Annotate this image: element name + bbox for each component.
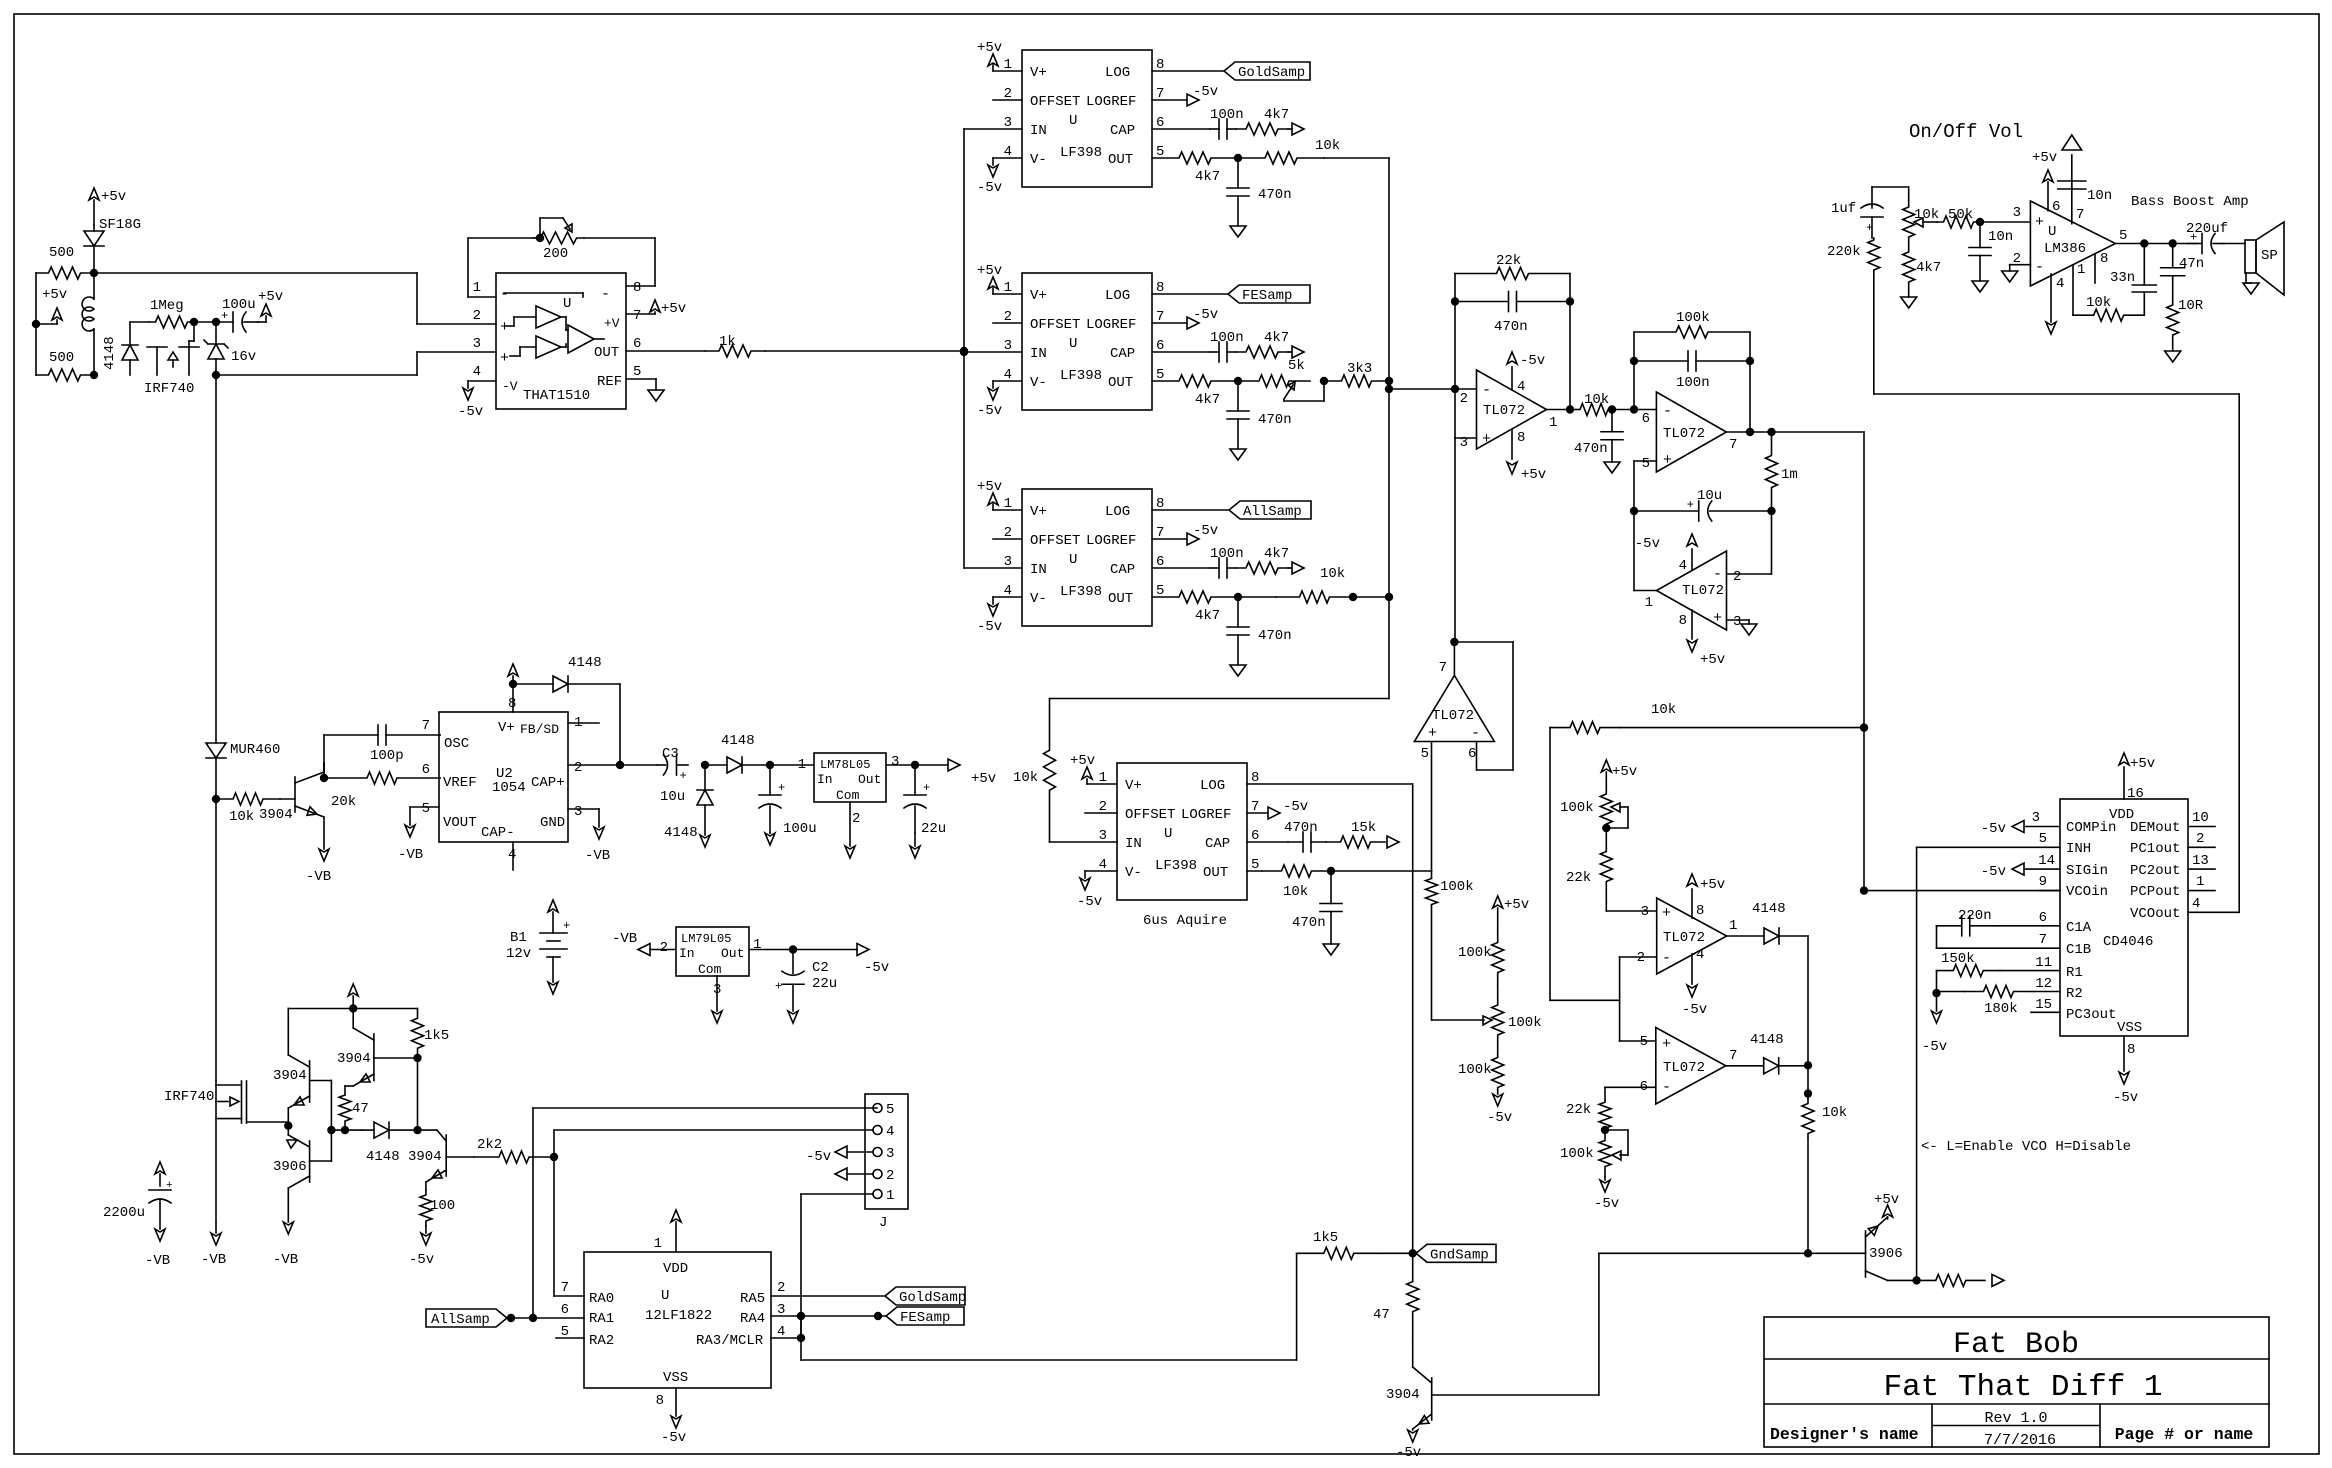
diode 4148 at TL072-6 out [1726,1032,1808,1074]
power arrow below 22u [910,833,920,858]
node 100k pot bottom [1603,825,1610,832]
svg-text:4: 4 [2056,276,2064,292]
svg-text:CAP: CAP [1110,123,1135,139]
node AllSamp b [530,1315,537,1322]
resistor 4k7 at U-B OUT [1152,375,1238,408]
node U-B out divider [1235,378,1242,385]
power -5v arrow at U-D pin4 [1077,871,1117,910]
svg-text:5: 5 [633,364,641,380]
power -VB at left rail bottom [201,1222,226,1268]
IC U2 1054 box [422,696,583,863]
svg-text:+: + [1662,1036,1671,1053]
power -VB at 3904 emitter [306,817,331,885]
svg-text:-5v: -5v [1981,864,2006,880]
wire U-A pin2 OFFSET stub [993,99,1022,101]
svg-text:8: 8 [656,1393,664,1409]
svg-text:3904: 3904 [273,1068,307,1084]
resistor 100k chain pot [1492,985,1542,1055]
svg-text:2: 2 [473,308,481,324]
node 10k out [1609,406,1616,413]
svg-text:V+: V+ [498,720,515,736]
wire top rail to THAT1510 pin2 [94,273,496,324]
svg-text:RA4: RA4 [740,1311,765,1327]
transistor Q 3906 enable [1866,1217,1903,1280]
svg-text:V-: V- [1125,865,1142,881]
wire CD4046 pin1 PCPout stub [2188,874,2215,891]
svg-text:OFFSET: OFFSET [1030,533,1080,549]
svg-text:OUT: OUT [1203,865,1228,881]
svg-text:2: 2 [574,760,582,776]
capacitor 100p [324,725,440,778]
svg-text:470n: 470n [1292,915,1326,931]
svg-text:-5v: -5v [977,180,1002,196]
svg-text:-: - [1471,725,1480,742]
svg-text:22k: 22k [1566,1102,1591,1118]
svg-text:-V: -V [502,379,518,394]
svg-text:4148: 4148 [366,1149,400,1165]
svg-text:OUT: OUT [594,345,619,361]
wire 100k to wiper [1432,905,1493,1025]
svg-text:V+: V+ [1030,288,1047,304]
svg-text:470n: 470n [1258,628,1292,644]
svg-text:10k: 10k [1651,702,1676,718]
svg-text:47n: 47n [2179,256,2204,272]
svg-text:15: 15 [2035,997,2052,1013]
svg-text:3: 3 [891,754,899,770]
svg-text:AllSamp: AllSamp [431,1312,490,1328]
node MUR460 junction [213,796,220,803]
op-amp U-B LF398 sample-hold box [1004,273,1165,410]
svg-text:OUT: OUT [1108,152,1133,168]
svg-text:2: 2 [886,1168,894,1184]
svg-text:V-: V- [1030,591,1047,607]
svg-text:+5v: +5v [2032,150,2057,166]
svg-text:7: 7 [1729,1048,1737,1064]
capacitor 33n bass boost [2110,244,2156,316]
resistor 1Meg [130,298,194,328]
resistor 10k to 3904 base [216,793,280,825]
svg-text:1uf: 1uf [1831,201,1856,217]
wire bottom rail to THAT1510 pin3 [216,352,496,375]
svg-text:FB/SD: FB/SD [520,722,559,737]
speaker SP [2224,222,2284,295]
node 100u reg in [767,762,774,769]
svg-text:1k: 1k [719,334,736,350]
capacitor 1uf [1831,187,1883,238]
svg-text:6: 6 [561,1302,569,1318]
svg-text:GoldSamp: GoldSamp [899,1290,966,1306]
svg-text:PC1out: PC1out [2130,841,2180,857]
resistor 10k at U-D OUT [1247,865,1331,900]
svg-text:Com: Com [836,788,860,803]
svg-text:THAT1510: THAT1510 [523,388,590,404]
svg-text:CAP+: CAP+ [531,775,565,791]
svg-text:6: 6 [2039,910,2047,926]
capacitor 220uf output [2186,221,2228,254]
svg-text:100n: 100n [1210,330,1244,346]
wire AllSamp to J5 [533,1108,877,1318]
op-amp U-D LF398 sample-hold box [1099,763,1260,900]
title text Rev 1.0 [1984,1410,2047,1427]
wire TL072-2 pin5 [1634,461,1656,511]
svg-text:-5v: -5v [1635,536,1660,552]
resistor 10k pull [1802,1099,1847,1253]
svg-text:LOG: LOG [1105,504,1130,520]
op-amp U THAT1510 box [473,273,642,409]
transistor Q 3904 upper pair [273,1055,331,1130]
svg-text:CAP: CAP [1110,562,1135,578]
svg-text:1: 1 [1645,595,1653,611]
battery B1 12v [506,900,570,994]
svg-text:16: 16 [2127,786,2144,802]
transistor Q 3904 cascode [337,1009,418,1087]
svg-text:1: 1 [2077,262,2085,278]
svg-text:+: + [778,781,785,795]
resistor 500 bottom [36,350,93,381]
wire TL072-4 pin5 down [1431,742,1433,872]
node 22k bottom [1602,1127,1609,1134]
svg-text:LM78L05: LM78L05 [820,758,870,772]
svg-text:10u: 10u [1697,488,1722,504]
wire OSC pin7 [439,734,440,736]
svg-text:10k: 10k [1914,207,1939,223]
svg-text:LM386: LM386 [2044,241,2086,257]
capacitor 22u reg [904,765,946,837]
wire to rail [1353,596,1389,598]
capacitor 100n and resistor 4k7 on U-A pin6 CAP [1152,107,1304,139]
power +5v arrow at 100u [258,289,283,322]
wire TL072-3 output loop [1634,511,1657,591]
svg-text:U: U [1069,113,1077,129]
node TL072-1 output [1567,406,1574,413]
svg-text:LF398: LF398 [1155,858,1197,874]
resistor 1k5 cluster [412,1009,450,1059]
net flag GoldSamp at RA5 [771,1287,966,1306]
node LM386 out a [2141,240,2148,247]
svg-text:100k: 100k [1560,1146,1594,1162]
svg-text:LM79L05: LM79L05 [681,932,731,946]
resistor 47 GndSamp [1373,1253,1419,1340]
svg-text:4k7: 4k7 [1264,546,1289,562]
svg-text:+5v: +5v [1700,652,1725,668]
svg-text:OUT: OUT [1108,591,1133,607]
svg-text:V-: V- [1030,152,1047,168]
svg-text:4: 4 [1696,947,1704,963]
svg-text:REF: REF [597,374,622,390]
svg-text:1Meg: 1Meg [150,298,184,314]
svg-text:500: 500 [49,350,74,366]
svg-text:VCOin: VCOin [2066,884,2108,900]
svg-text:FESamp: FESamp [1242,288,1292,304]
wire left rail lower [215,799,217,1222]
svg-text:100u: 100u [783,821,817,837]
power +5v arrow at THAT1510 pin7 [626,300,686,317]
svg-text:8: 8 [1517,430,1525,446]
transistor Q 3904 gnd sample [1386,1253,1808,1429]
power -5v arrow at U-B pin4 V- [977,381,1022,419]
power +5v arrow at U-B pin1 V+ [977,263,1022,294]
resistor 150k at CD4046 R1 [1937,951,2061,993]
svg-text:3904: 3904 [408,1149,442,1165]
svg-text:2: 2 [1637,950,1645,966]
svg-text:TL072: TL072 [1663,930,1705,946]
wire 3906 collector to INH rail [1888,1279,1917,1281]
power -5v output arrow [857,944,889,977]
wire to LM386 pin3 [1980,221,2030,223]
net flag AllSamp to RA1 [426,1309,584,1328]
power -5v at TL072-3 pin4 [1635,534,1697,574]
ground at THAT1510 pin5 REF [626,379,664,401]
svg-text:V+: V+ [1030,504,1047,520]
svg-text:+5v: +5v [971,771,996,787]
wire MUR460 to junction [215,758,217,799]
power ground at LM386 pin4 [2046,274,2064,334]
resistor pot 5k trim [1238,358,1324,401]
svg-text:3: 3 [2013,205,2021,221]
svg-text:-5v: -5v [1487,1110,1512,1126]
svg-text:RA5: RA5 [740,1291,765,1307]
svg-text:GoldSamp: GoldSamp [1238,65,1305,81]
svg-text:+5v: +5v [977,263,1002,279]
wire TL072-5 pin2 [1620,956,1657,958]
svg-text:12: 12 [2035,976,2052,992]
svg-text:4k7: 4k7 [1916,260,1941,276]
resistor 500 top [36,245,93,279]
ground below U-D 470n [1323,944,1339,955]
wire CD4046 pin10 DEMout stub [2188,810,2215,827]
power +5v at LM386 pin6 [2032,150,2060,215]
wire LM386 pin8 stub [2095,251,2108,283]
power arrow at J2 [835,1168,873,1180]
svg-text:3906: 3906 [273,1159,307,1175]
svg-text:OFFSET: OFFSET [1030,317,1080,333]
svg-text:-5v: -5v [458,404,483,420]
node 50k out [1977,219,1984,226]
node feedback tap [1452,386,1459,393]
svg-text:8: 8 [1696,903,1704,919]
op-amp TL072-1 [1460,370,1558,451]
wire 3904 collector up [323,763,325,778]
svg-text:CAP-: CAP- [481,825,515,841]
power -5v below 100k chain [1487,1090,1512,1126]
svg-text:22k: 22k [1496,253,1521,269]
svg-text:IN: IN [1030,123,1047,139]
svg-text:-5v: -5v [977,619,1002,635]
svg-text:LOGREF: LOGREF [1181,807,1231,823]
text 6us Aquire [1143,913,1227,929]
svg-text:+: + [1482,431,1491,448]
resistor 100k divider top [1426,878,1474,905]
power -5v at 3904 gnd sample emitter [1396,1429,1421,1461]
svg-text:200: 200 [543,246,568,262]
wire LM386 output [2115,243,2196,245]
node 100u left [213,319,220,326]
svg-text:Page # or name: Page # or name [2115,1425,2254,1444]
svg-text:6: 6 [2052,199,2060,215]
svg-text:LF398: LF398 [1060,584,1102,600]
svg-text:R2: R2 [2066,986,2083,1002]
svg-text:Out: Out [858,772,881,787]
svg-text:+: + [923,781,930,795]
wire THAT1510 pin1 to gain pot [468,238,540,297]
IC 12LF1822 box [561,1236,786,1409]
wire 100u to LM78L05 [770,764,814,766]
node FESamp tie b [875,1313,882,1320]
svg-text:+: + [563,919,570,933]
net flag GoldSamp at U-A LOG [1152,62,1310,81]
ground below 10n [1972,281,1988,292]
svg-text:U: U [1069,552,1077,568]
wire 1Meg to 100u [194,321,216,323]
svg-text:4148: 4148 [1752,901,1786,917]
wire 1k5 node down [417,1058,419,1130]
svg-text:4: 4 [473,364,481,380]
svg-text:4k7: 4k7 [1264,330,1289,346]
power -5v below R1 R2 [1922,993,1947,1055]
wire 3904 upper emitter down [287,1108,289,1126]
svg-text:1: 1 [473,280,481,296]
svg-text:CD4046: CD4046 [2103,934,2153,950]
svg-text:SF18G: SF18G [99,217,141,233]
svg-text:LOGREF: LOGREF [1086,317,1136,333]
svg-text:Fat Bob: Fat Bob [1953,1328,2079,1362]
capacitor 10n input [1969,222,2013,281]
op-amp TL072-3 [1645,551,1742,630]
svg-text:5: 5 [422,801,430,817]
resistor 10k U-C to summing rail [1238,566,1353,603]
node C3 out [702,762,709,769]
svg-text:5: 5 [2039,831,2047,847]
power -5v at TL072-5 pin4 [1682,947,1707,1018]
svg-text:8: 8 [1679,613,1687,629]
svg-text:-VB: -VB [612,931,637,947]
resistor 100k chain second [1458,930,1504,985]
svg-text:3k3: 3k3 [1347,361,1372,377]
svg-text:10k: 10k [229,809,254,825]
node +5v reg out [912,762,919,769]
power +5v arrow at U-C pin1 V+ [977,479,1022,510]
svg-text:+5v: +5v [1521,467,1546,483]
svg-text:-5v: -5v [1396,1445,1421,1461]
node 10u left [1631,508,1638,515]
ground below 470n U-A [1230,226,1246,237]
svg-text:DEMout: DEMout [2130,820,2180,836]
svg-text:6: 6 [1642,411,1650,427]
svg-text:-VB: -VB [201,1252,226,1268]
wire U2 CAP+ to C3 [568,764,657,766]
svg-text:4k7: 4k7 [1195,169,1220,185]
svg-text:1: 1 [1729,918,1737,934]
svg-text:-5v: -5v [1922,1039,1947,1055]
svg-text:6us Aquire: 6us Aquire [1143,913,1227,929]
svg-text:1k5: 1k5 [424,1028,449,1044]
svg-text:-: - [1482,382,1491,399]
svg-text:1: 1 [886,1188,894,1204]
svg-text:-: - [1713,566,1722,583]
power -5v at J3 [806,1146,873,1165]
wire U-C pin2 OFFSET stub [993,538,1022,540]
wire LM79L05 out [749,949,857,951]
node summing to TL072-1 [1386,386,1393,393]
node R1 R2 junction [1933,990,1940,997]
svg-text:33n: 33n [2110,270,2135,286]
svg-text:+: + [500,319,509,336]
op-amp TL072-4 [1414,660,1494,762]
resistor 1m [1766,432,1798,511]
power +5v at CD4046 pin16 VDD [2119,753,2155,802]
svg-text:-VB: -VB [273,1252,298,1268]
node RA3 tie [798,1335,805,1342]
svg-text:3904: 3904 [1386,1387,1420,1403]
node U-A out divider [1235,155,1242,162]
svg-text:+: + [166,1180,173,1192]
svg-text:PCPout: PCPout [2130,884,2180,900]
svg-text:150k: 150k [1941,951,1975,967]
node 1m bottom [1768,508,1775,515]
svg-text:PC3out: PC3out [2066,1007,2116,1023]
power arrow above U2 [508,664,518,684]
svg-text:-: - [601,286,610,303]
node IN rail at U-B pin3 [961,349,968,356]
ground at LM386 pin2 [2002,265,2031,282]
resistor 47 cluster [339,1086,369,1130]
node cluster bases [328,1127,335,1134]
svg-text:13: 13 [2192,853,2209,869]
svg-text:1054: 1054 [492,780,526,796]
capacitor 220n C1A-C1B [1937,908,2061,948]
svg-text:SIGin: SIGin [2066,863,2108,879]
svg-text:4k7: 4k7 [1195,608,1220,624]
svg-text:U: U [1164,826,1172,842]
svg-text:180k: 180k [1984,1001,2018,1017]
power -5v at CD4046 pin3 COMPin [1981,810,2060,837]
resistor 100k TL072-2 feedback [1634,310,1750,410]
svg-text:J: J [879,1215,887,1231]
svg-text:7/7/2016: 7/7/2016 [1984,1432,2056,1449]
capacitor 10n at LM386 pin7 [2058,135,2112,224]
wire 220k down to VCOout return [1874,272,2239,394]
svg-text:14: 14 [2038,853,2055,869]
wire U2 pin4 CAP- stub [512,842,514,870]
wire 1uf to vol pot [1872,187,1909,200]
svg-text:3: 3 [886,1146,894,1162]
capacitor 100n TL072-2 feedback [1631,332,1754,433]
svg-text:-5v: -5v [1594,1196,1619,1212]
svg-text:+: + [680,769,687,783]
svg-text:4148: 4148 [568,655,602,671]
op-amp TL072-5 [1637,898,1738,974]
power +5v arrow on left rail [33,287,68,327]
svg-text:100p: 100p [370,748,404,764]
node after 10k U-C [1350,594,1357,601]
node zener bottom [213,372,220,379]
svg-text:IN: IN [1030,562,1047,578]
svg-text:2: 2 [1460,391,1468,407]
resistor 1k THAT1510 output [626,334,964,357]
svg-text:In: In [817,772,833,787]
wire mid rail [1550,728,1620,1041]
node INH rail bottom [1913,1277,1920,1284]
op-amp U-C LF398 sample-hold box [1004,489,1165,626]
resistor 2k2 [474,1137,554,1163]
svg-text:+: + [500,350,509,367]
text On/Off Vol [1909,121,2023,143]
capacitor C2 22u [775,950,837,1012]
wire to TL072-1 inverting input [1389,388,1476,390]
capacitor 10u [1634,488,1772,521]
wire VREF pin6 [439,777,440,779]
title text Designer's name [1770,1425,1919,1444]
